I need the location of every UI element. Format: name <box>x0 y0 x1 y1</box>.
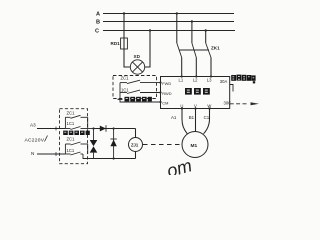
wire common rail to CM <box>120 83 161 102</box>
contactor dashed box (fwd/rev contactors) <box>60 109 88 164</box>
diode pair D1 (back-to-back) <box>90 129 98 159</box>
control box caption smudge (Chinese: fwd/rev changeover) <box>118 97 152 102</box>
junction on C for ZK1 pole 3 <box>205 29 207 31</box>
wire A to ZK1 pole1 <box>176 14 178 44</box>
brake coil ZJ1 <box>129 138 143 152</box>
wire W to motor <box>204 109 210 134</box>
wire coil to bottom rail <box>135 152 137 159</box>
svg-text:ZC1: ZC1 <box>67 111 76 116</box>
terminal L2 <box>193 75 198 82</box>
svg-text:AC220V: AC220V <box>25 138 45 144</box>
wire phase B bus <box>103 21 234 23</box>
inverter name smudge (Chinese: bian pin qi) <box>185 88 210 95</box>
switch ZK1 pole2 blade <box>192 43 196 58</box>
switch ZK1 pole1 blade <box>177 43 182 58</box>
wire V to motor <box>195 109 197 132</box>
contactor caption smudge (Chinese: fwd/rev contactor) <box>63 131 90 135</box>
wire A3 input <box>37 128 65 130</box>
svg-text:B1: B1 <box>189 115 195 120</box>
terminal W <box>207 104 211 110</box>
slash mark <box>45 136 48 142</box>
svg-text:ZK1: ZK1 <box>211 46 220 51</box>
wire ZK1 pole2 to L2 <box>195 58 197 77</box>
contact 1C1 to RWD <box>120 90 161 93</box>
terminal V <box>194 104 197 110</box>
svg-text:1C1: 1C1 <box>121 88 129 93</box>
svg-text:ZC1: ZC1 <box>67 137 76 142</box>
wire stub from 30A <box>230 85 233 92</box>
tick A3 wire <box>55 127 57 131</box>
svg-text:V: V <box>194 104 197 109</box>
diode D3 vertical branch <box>110 129 116 159</box>
svg-text:FWD: FWD <box>162 81 171 86</box>
contact 1C1 main row <box>65 127 93 130</box>
wire ZK1 pole1 to L1 <box>181 58 183 77</box>
junction D3 top <box>113 127 115 129</box>
svg-text:RWD: RWD <box>162 91 171 96</box>
svg-text:XD: XD <box>134 54 141 59</box>
rectifier top rail <box>94 128 136 130</box>
svg-text:B: B <box>96 20 100 26</box>
svg-text:L1: L1 <box>179 78 184 83</box>
wire N row step to bottom rail <box>83 154 94 159</box>
terminal L1 <box>179 75 184 82</box>
svg-text:1C1: 1C1 <box>67 148 75 153</box>
wire phase C bus <box>103 30 235 32</box>
junction on C lamp return <box>149 29 151 31</box>
svg-text:30C: 30C <box>224 101 232 106</box>
junction top rail left <box>92 127 94 129</box>
switch ZK1 pole3 blade <box>206 43 211 58</box>
junction on A for ZK1 pole 1 <box>176 12 178 14</box>
wire U to motor <box>182 109 187 134</box>
alarm note smudge (Chinese: to alarm and display) <box>231 75 255 84</box>
svg-text:C1: C1 <box>204 115 210 120</box>
tick N wire <box>55 152 57 156</box>
control dashed box (forward/reverse command contacts) <box>113 76 157 99</box>
svg-text:W: W <box>207 104 211 109</box>
svg-text:A: A <box>96 12 100 18</box>
svg-text:1C1: 1C1 <box>67 121 75 126</box>
wire dashed from 30C with arrow <box>230 102 259 105</box>
lamp XD <box>130 60 144 74</box>
inverter U1 box <box>161 77 230 109</box>
wire from A down to fuse <box>123 14 125 39</box>
contact ZC1 to FWD <box>120 80 161 83</box>
svg-text:L3: L3 <box>207 78 212 83</box>
svg-text:ZJ1: ZJ1 <box>131 143 139 148</box>
svg-text:CM: CM <box>162 100 168 105</box>
svg-text:ZC1: ZC1 <box>121 75 130 80</box>
terminal FWD <box>159 81 171 86</box>
svg-text:A3: A3 <box>30 123 36 128</box>
terminal L3 <box>207 75 212 82</box>
dashed mechanical link ZJ1 to motor <box>143 144 182 146</box>
svg-text:RD1: RD1 <box>111 41 121 46</box>
junction on B for ZK1 pole 2 <box>191 20 193 22</box>
junction D3 bottom <box>113 157 115 159</box>
contact 1C1 N row <box>65 152 83 155</box>
wire fuse to lamp <box>124 49 130 67</box>
ZK1 gang tie bar <box>179 49 209 51</box>
svg-text:L2: L2 <box>193 78 198 83</box>
terminal U <box>180 104 183 110</box>
wire to brake coil <box>135 129 137 138</box>
contact ZC1 lower branch <box>65 142 87 154</box>
svg-text:30A: 30A <box>220 79 228 84</box>
svg-text:N: N <box>31 151 34 156</box>
motor M1 <box>182 132 208 158</box>
svg-text:M1: M1 <box>191 143 198 149</box>
svg-text:A1: A1 <box>171 115 177 120</box>
diode D2 on top rail <box>100 125 106 131</box>
terminal CM <box>159 100 168 105</box>
wire C to ZK1 pole3 <box>205 31 207 44</box>
svg-text:C: C <box>95 29 99 35</box>
junction on A for lamp branch <box>123 12 125 14</box>
wire B to ZK1 pole2 <box>191 22 193 44</box>
svg-text:U: U <box>180 104 183 109</box>
wire phase A bus <box>103 13 234 15</box>
contact ZC1 upper branch <box>65 115 87 128</box>
wire N input <box>37 153 65 155</box>
terminal RWD <box>159 91 171 96</box>
wire ZK1 pole3 to L3 <box>210 58 212 77</box>
wire lamp to C <box>145 31 150 68</box>
fuse RD1 <box>121 38 128 49</box>
rectifier bottom rail <box>94 158 136 160</box>
